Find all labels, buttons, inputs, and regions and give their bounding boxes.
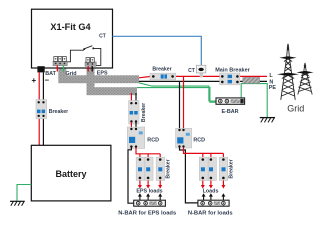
svg-text:PE: PE xyxy=(269,85,277,91)
svg-text:Battery: Battery xyxy=(55,169,86,179)
svg-text:X1-Fit G4: X1-Fit G4 xyxy=(50,22,91,32)
svg-text:Grid: Grid xyxy=(66,71,77,77)
svg-text:Breaker: Breaker xyxy=(49,109,68,115)
svg-text:Loads: Loads xyxy=(203,188,219,194)
svg-text:–: – xyxy=(45,76,50,85)
svg-text:CT: CT xyxy=(188,68,195,74)
svg-text:Breaker: Breaker xyxy=(229,159,235,178)
svg-text:CT: CT xyxy=(99,34,106,40)
svg-text:EPS: EPS xyxy=(97,71,108,77)
svg-text:EPS loads: EPS loads xyxy=(136,188,162,194)
svg-text:RCD: RCD xyxy=(147,137,159,143)
svg-text:N-BAR for EPS loads: N-BAR for EPS loads xyxy=(118,210,176,216)
svg-text:Breaker: Breaker xyxy=(141,103,147,122)
svg-text:N-BAR for loads: N-BAR for loads xyxy=(188,210,233,216)
svg-text:Breaker: Breaker xyxy=(165,159,171,178)
svg-text:E-BAR: E-BAR xyxy=(221,109,238,115)
svg-text:Main Breaker: Main Breaker xyxy=(215,67,250,73)
svg-text:RCD: RCD xyxy=(193,137,205,143)
svg-text:Grid: Grid xyxy=(287,103,304,113)
svg-text:+: + xyxy=(32,76,37,85)
svg-text:Breaker: Breaker xyxy=(152,66,171,72)
svg-text:L: L xyxy=(269,73,273,79)
